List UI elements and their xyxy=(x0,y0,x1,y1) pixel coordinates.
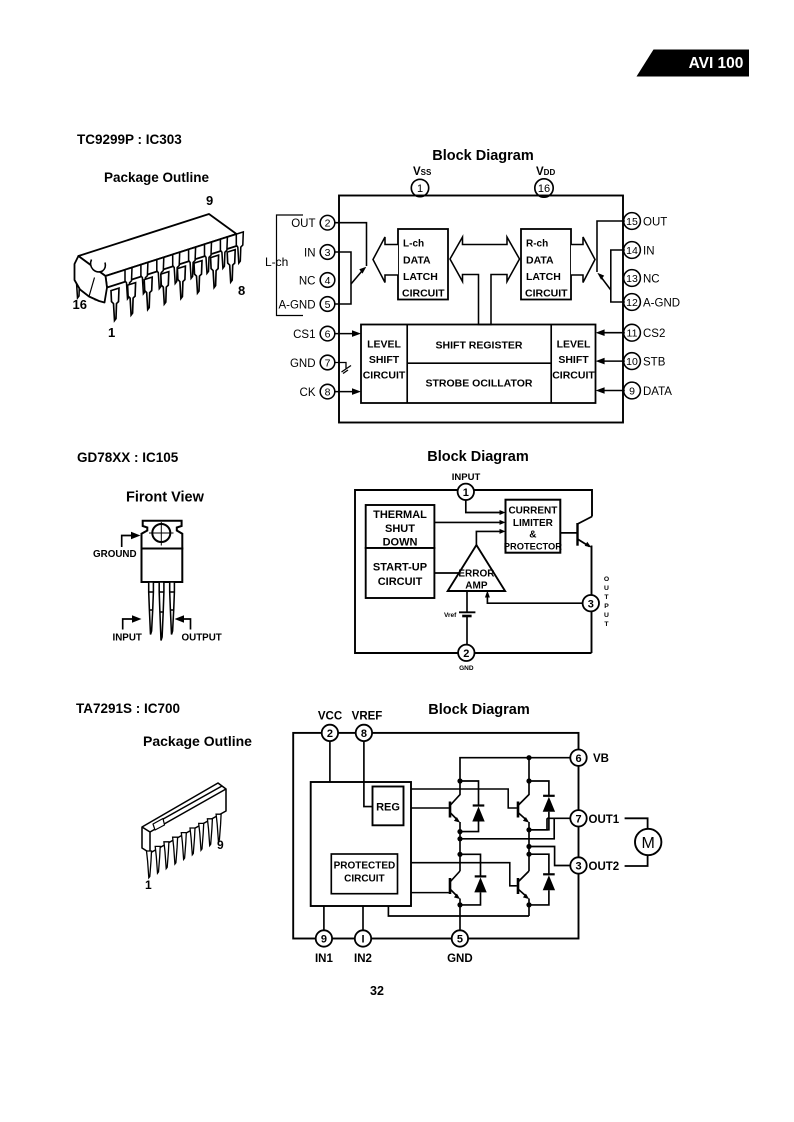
label GROUND with arrow xyxy=(93,532,141,560)
svg-text:IN: IN xyxy=(643,245,655,257)
emitter arrowhead lower-left xyxy=(454,894,460,931)
L-ch bracket label xyxy=(265,255,288,269)
pin 6 CS1 xyxy=(293,326,335,341)
emitter arrowhead lower-right xyxy=(523,894,529,916)
IC303 DIP-16 back-left pins 16 15 xyxy=(75,266,100,299)
svg-text:32: 32 xyxy=(370,984,384,998)
pin 6 VB xyxy=(570,750,586,766)
wire VCC riser xyxy=(329,741,331,782)
wire base feed upper-left transistor xyxy=(411,807,449,809)
L-ch bracket xyxy=(277,215,304,316)
IC105 TO-220 tab with mounting hole xyxy=(142,521,183,549)
svg-text:T: T xyxy=(604,594,609,601)
heading Firont View xyxy=(126,490,205,506)
svg-text:OUT2: OUT2 xyxy=(589,861,620,873)
heading Package Outline (IC303) xyxy=(104,170,210,185)
diode D upper-left xyxy=(460,781,485,832)
label Vref xyxy=(444,612,457,619)
wire pin7 chassis ground xyxy=(335,363,351,374)
svg-text:CIRCUIT: CIRCUIT xyxy=(525,288,568,300)
pin 2 OUT xyxy=(291,215,335,230)
svg-text:4: 4 xyxy=(325,275,331,287)
block START-UP CIRCUIT xyxy=(366,548,435,598)
IC105 lead output xyxy=(170,582,175,635)
svg-text:NC: NC xyxy=(643,273,660,285)
pin 2 VCC xyxy=(322,725,338,741)
svg-text:Block Diagram: Block Diagram xyxy=(428,702,530,718)
svg-text:R-ch: R-ch xyxy=(526,239,548,250)
wire pin11 arrow into level shift right xyxy=(596,329,625,336)
pin 13 NC xyxy=(624,270,660,287)
svg-text:3: 3 xyxy=(575,861,581,873)
IC303 DIP-16 front pin row xyxy=(111,250,235,321)
svg-text:3: 3 xyxy=(588,598,594,610)
svg-text:SHIFT REGISTER: SHIFT REGISTER xyxy=(436,340,523,352)
svg-text:A-GND: A-GND xyxy=(643,297,680,309)
wire pin8 arrow into level shift xyxy=(335,388,361,395)
junction top rail right column xyxy=(526,755,531,760)
pin 11 CS2 xyxy=(624,324,666,341)
IC700 SIP-9 pins xyxy=(147,814,222,878)
pin 5 GND xyxy=(452,930,468,946)
IC105 top edge right segment xyxy=(474,490,592,517)
pin 2 GND circle xyxy=(458,645,474,661)
svg-text:Package Outline: Package Outline xyxy=(104,170,210,185)
svg-text:1: 1 xyxy=(417,183,423,195)
label IN1 xyxy=(315,953,334,965)
IC105 TO-220 body xyxy=(142,549,183,583)
L volume wiper arrow xyxy=(351,267,366,284)
svg-text:O: O xyxy=(604,576,609,583)
svg-text:6: 6 xyxy=(325,329,331,341)
pin 7 GND xyxy=(290,355,335,370)
svg-text:LEVEL: LEVEL xyxy=(367,339,401,351)
hollow arrow right of R-ch block xyxy=(571,237,595,283)
block REG xyxy=(373,787,404,826)
svg-text:LATCH: LATCH xyxy=(526,271,561,283)
svg-text:U: U xyxy=(604,585,609,592)
pin 14 IN xyxy=(624,242,655,259)
label INPUT pin1 xyxy=(452,472,481,483)
IC303 package pin labels 9 8 16 1 xyxy=(73,193,246,340)
svg-text:Vref: Vref xyxy=(444,612,457,619)
svg-text:CIRCUIT: CIRCUIT xyxy=(552,370,595,382)
svg-text:OUT: OUT xyxy=(291,218,315,230)
junction dots upper-right xyxy=(526,778,531,832)
level shift left column divider xyxy=(406,325,408,404)
IC105 outer box xyxy=(355,490,592,653)
pin 5 A-GND xyxy=(278,297,334,312)
pin 8 VREF xyxy=(356,725,372,741)
wire feedback from pin3 to error amp xyxy=(485,591,583,604)
svg-text:CIRCUIT: CIRCUIT xyxy=(402,288,445,300)
svg-text:GND: GND xyxy=(447,953,473,965)
svg-text:I: I xyxy=(361,934,364,946)
svg-text:Firont View: Firont View xyxy=(126,490,205,506)
svg-text:5: 5 xyxy=(457,934,463,946)
svg-text:CIRCUIT: CIRCUIT xyxy=(344,874,385,885)
svg-text:DATA: DATA xyxy=(526,255,554,267)
svg-text:CIRCUIT: CIRCUIT xyxy=(378,576,423,588)
svg-text:IN1: IN1 xyxy=(315,953,334,965)
junction dot left column crossover xyxy=(457,836,462,841)
svg-text:STB: STB xyxy=(643,356,666,368)
label OUTPUT with arrow xyxy=(175,615,222,643)
block THERMAL SHUT DOWN xyxy=(366,505,435,549)
IC700 outer box xyxy=(293,733,578,939)
svg-text:CIRCUIT: CIRCUIT xyxy=(363,370,406,382)
hollow arrow left of L-ch block xyxy=(373,237,398,283)
emitter arrowhead upper-right xyxy=(523,817,529,830)
svg-text:VDD: VDD xyxy=(536,166,555,178)
svg-text:SHUT: SHUT xyxy=(385,523,415,535)
svg-text:8: 8 xyxy=(325,387,331,399)
net label Vss xyxy=(413,166,432,178)
svg-text:AVI 100: AVI 100 xyxy=(689,55,744,72)
wire pin10 arrow into level shift right xyxy=(596,358,625,365)
wire right column to OUT2 xyxy=(529,847,570,866)
svg-text:CK: CK xyxy=(300,387,316,399)
svg-text:9: 9 xyxy=(206,193,213,208)
IC105 mounting hole xyxy=(149,522,174,546)
label STROBE OCILLATOR xyxy=(426,378,533,390)
op-amp ERROR AMP triangle xyxy=(448,545,505,592)
svg-text:GND: GND xyxy=(459,665,474,672)
wire right column segment xyxy=(528,830,530,871)
label OUT2 xyxy=(589,861,620,873)
label OUTPUT vertical xyxy=(604,576,610,628)
svg-text:STROBE OCILLATOR: STROBE OCILLATOR xyxy=(426,378,533,390)
label SHIFT REGISTER xyxy=(436,340,523,352)
svg-text:7: 7 xyxy=(575,814,581,826)
transistor Q lower-right xyxy=(518,871,529,897)
wire pin6 arrow into level shift xyxy=(335,330,361,337)
wire upper-right node to OUT1 xyxy=(529,818,547,830)
svg-text:2: 2 xyxy=(325,218,331,230)
svg-text:START-UP: START-UP xyxy=(373,562,427,574)
svg-text:TC9299P : IC303: TC9299P : IC303 xyxy=(77,132,182,147)
label IN2 xyxy=(354,953,372,965)
svg-text:T: T xyxy=(604,621,609,628)
pin 16 Vdd xyxy=(535,179,553,197)
page number 32 xyxy=(370,984,384,998)
pin 1 IN2 xyxy=(355,906,371,947)
svg-text:16: 16 xyxy=(538,183,550,195)
IC303 block outer box xyxy=(339,196,623,423)
wire pin1 into current limiter xyxy=(466,500,506,515)
svg-text:THERMAL: THERMAL xyxy=(373,509,427,521)
wire OUT1 lead-in xyxy=(547,817,570,819)
svg-text:U: U xyxy=(604,612,609,619)
svg-text:CS2: CS2 xyxy=(643,328,665,340)
transistor Q upper-left xyxy=(450,781,460,820)
svg-text:OUTPUT: OUTPUT xyxy=(182,633,222,644)
pin 10 STB xyxy=(624,353,666,370)
svg-text:PROTECTOR: PROTECTOR xyxy=(504,542,562,552)
svg-text:TA7291S : IC700: TA7291S : IC700 xyxy=(76,701,180,716)
label GND xyxy=(447,953,473,965)
block CURRENT LIMITER PROTECTOR xyxy=(504,500,562,553)
heading Package Outline (IC700) xyxy=(143,733,252,749)
svg-text:LEVEL: LEVEL xyxy=(557,339,591,351)
pin 15 OUT xyxy=(624,213,668,230)
svg-text:SHIFT: SHIFT xyxy=(369,354,400,366)
svg-text:M: M xyxy=(642,835,655,852)
svg-text:1: 1 xyxy=(463,487,469,499)
label GND pin2 xyxy=(459,665,474,672)
wire pin2 to L volume node xyxy=(335,223,367,266)
net label Vdd xyxy=(536,166,555,178)
wire pin3 wiper vertical xyxy=(335,252,351,304)
level shift right column divider xyxy=(550,325,552,404)
junction dots lower-left xyxy=(457,852,462,908)
IC303 DIP-16 back pin row xyxy=(125,232,243,299)
svg-text:Block Diagram: Block Diagram xyxy=(432,148,534,164)
IC105 lead ground center xyxy=(159,582,164,641)
wire base feed upper-right transistor xyxy=(411,789,517,808)
svg-text:3: 3 xyxy=(325,247,331,259)
heading Block Diagram (IC700) xyxy=(428,702,530,718)
transistor Q upper-right xyxy=(518,781,529,820)
pin 1 INPUT circle xyxy=(458,484,474,500)
svg-text:15: 15 xyxy=(626,216,638,228)
diode D upper-right xyxy=(529,781,555,830)
svg-text:L-ch: L-ch xyxy=(265,255,288,269)
svg-text:INPUT: INPUT xyxy=(113,633,142,644)
svg-text:8: 8 xyxy=(238,283,245,298)
svg-text:GROUND: GROUND xyxy=(93,549,137,560)
svg-text:IN2: IN2 xyxy=(354,953,372,965)
wire left column segment xyxy=(459,832,461,871)
diode D lower-right xyxy=(529,854,555,905)
emitter arrowhead upper-left xyxy=(454,817,460,832)
svg-text:A-GND: A-GND xyxy=(278,299,315,311)
wire base feed lower-left transistor xyxy=(411,892,449,894)
heading Block Diagram (IC303) xyxy=(432,148,534,164)
svg-text:PROTECTED: PROTECTED xyxy=(334,861,396,872)
svg-text:9: 9 xyxy=(629,386,635,398)
heading TC9299P : IC303 xyxy=(77,132,182,147)
diode D lower-left xyxy=(460,854,487,905)
block PROTECTED CIRCUIT xyxy=(331,854,397,894)
block R-ch DATA LATCH CIRCUIT xyxy=(521,229,571,300)
svg-text:VSS: VSS xyxy=(413,166,432,178)
svg-text:12: 12 xyxy=(626,297,638,309)
wire OUT1 to motor xyxy=(625,818,648,829)
transistor Q lower-left xyxy=(450,871,460,897)
heading TA7291S : IC700 xyxy=(76,701,180,716)
IC700 SIP-9 package body xyxy=(142,783,226,853)
label OUT1 xyxy=(589,814,620,826)
svg-text:2: 2 xyxy=(327,728,333,740)
junction dot right column OUT2 xyxy=(526,844,531,849)
wire left column to OUT1 riser xyxy=(460,818,554,839)
svg-text:10: 10 xyxy=(626,356,638,368)
IC303 DIP-16 package body xyxy=(75,214,239,303)
svg-text:13: 13 xyxy=(626,273,638,285)
svg-text:REG: REG xyxy=(376,802,400,814)
pin 8 CK xyxy=(300,384,335,399)
svg-text:9: 9 xyxy=(321,934,327,946)
wire motor to OUT2 xyxy=(625,855,648,866)
wire thermal to current limiter xyxy=(434,520,505,525)
motor M xyxy=(635,829,661,855)
svg-text:6: 6 xyxy=(575,753,581,765)
pin 9 IN1 xyxy=(316,906,332,947)
wire base feed lower-right transistor xyxy=(411,863,517,886)
label INPUT with arrow xyxy=(113,615,142,643)
svg-text:DATA: DATA xyxy=(643,386,672,398)
svg-text:L-ch: L-ch xyxy=(403,239,424,250)
svg-text:OUT: OUT xyxy=(643,216,667,228)
svg-text:AMP: AMP xyxy=(465,581,488,592)
label LEVEL SHIFT CIRCUIT left xyxy=(363,339,406,382)
svg-text:IN: IN xyxy=(304,247,316,259)
wire top rail to VB xyxy=(460,758,570,781)
label VB xyxy=(593,753,609,765)
block shift register / strobe oscillator outer xyxy=(361,325,596,404)
svg-text:OUT1: OUT1 xyxy=(589,814,620,826)
label VREF xyxy=(352,711,383,723)
hollow double arrow between latch blocks with stem xyxy=(450,237,520,325)
pin 12 A-GND xyxy=(624,294,680,311)
svg-text:CURRENT: CURRENT xyxy=(508,506,557,517)
svg-text:ERROR: ERROR xyxy=(458,569,495,580)
svg-text:Package Outline: Package Outline xyxy=(143,733,252,749)
wire VREF to REG xyxy=(364,741,373,807)
svg-text:DOWN: DOWN xyxy=(383,537,418,549)
ground rail xyxy=(388,906,529,916)
svg-text:8: 8 xyxy=(361,728,367,740)
label VCC xyxy=(318,711,342,723)
block L-ch DATA LATCH CIRCUIT xyxy=(398,229,448,300)
pin 1 Vss xyxy=(411,179,428,196)
svg-text:&: & xyxy=(529,530,536,541)
IC700 package pin labels 1 9 xyxy=(145,838,224,892)
svg-text:VREF: VREF xyxy=(352,711,383,723)
svg-text:1: 1 xyxy=(145,878,152,892)
svg-text:1: 1 xyxy=(108,325,115,340)
svg-text:NC: NC xyxy=(299,275,316,287)
svg-text:11: 11 xyxy=(627,328,638,340)
svg-text:P: P xyxy=(604,603,609,610)
svg-text:LIMITER: LIMITER xyxy=(513,518,554,529)
svg-text:DATA: DATA xyxy=(403,255,431,267)
junction dots lower-right xyxy=(526,852,531,908)
svg-text:CS1: CS1 xyxy=(293,329,315,341)
pin 4 NC xyxy=(299,273,335,288)
page header tag AVI 100 xyxy=(637,50,750,77)
R volume wiper arrow xyxy=(597,273,611,290)
svg-text:2: 2 xyxy=(463,648,469,660)
transistor Q1 pass element xyxy=(560,517,592,547)
svg-text:LATCH: LATCH xyxy=(403,271,438,283)
wire pin9 arrow into level shift right xyxy=(596,387,625,394)
pin 7 OUT1 xyxy=(570,810,586,826)
junction dots upper-left xyxy=(457,778,462,834)
svg-text:GND: GND xyxy=(290,358,316,370)
pin 9 DATA xyxy=(624,382,673,399)
IC700 control logic box xyxy=(311,782,411,906)
heading Block Diagram (IC105) xyxy=(427,449,529,465)
transistor Q1 emitter arrowhead xyxy=(585,542,592,548)
svg-text:VCC: VCC xyxy=(318,711,342,723)
label LEVEL SHIFT CIRCUIT right xyxy=(552,339,595,382)
svg-text:VB: VB xyxy=(593,753,609,765)
svg-text:9: 9 xyxy=(217,838,224,852)
svg-text:16: 16 xyxy=(73,297,87,312)
svg-text:GD78XX : IC105: GD78XX : IC105 xyxy=(77,450,179,465)
pin 3 OUT2 xyxy=(570,857,586,873)
pin 3 OUTPUT circle xyxy=(583,595,599,611)
svg-text:INPUT: INPUT xyxy=(452,472,481,483)
wire right column riser top xyxy=(528,758,530,781)
shift register / strobe divider xyxy=(407,362,551,364)
svg-text:5: 5 xyxy=(325,299,331,311)
wire start-up to error amp xyxy=(434,572,459,574)
wire pin15 to R volume node xyxy=(597,221,625,272)
svg-text:SHIFT: SHIFT xyxy=(558,354,589,366)
battery Vref xyxy=(459,591,475,645)
svg-text:14: 14 xyxy=(626,245,638,257)
svg-text:7: 7 xyxy=(325,358,331,370)
heading GD78XX : IC105 xyxy=(77,450,179,465)
wire error amp to current limiter xyxy=(476,529,505,545)
pin 3 IN xyxy=(304,245,335,260)
svg-text:Block Diagram: Block Diagram xyxy=(427,449,529,465)
IC105 lead input xyxy=(149,582,154,635)
wire pin14 pin12 vertical xyxy=(611,250,625,302)
